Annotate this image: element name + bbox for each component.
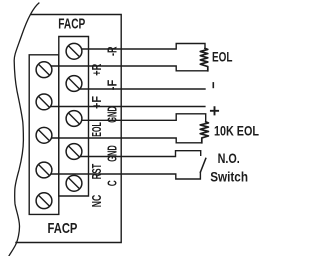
svg-text:10K EOL: 10K EOL [214, 122, 259, 138]
svg-text:C: C [106, 180, 120, 186]
svg-text:+R: +R [90, 64, 104, 76]
svg-text:N.O.: N.O. [218, 150, 240, 166]
svg-text:GND: GND [106, 106, 120, 123]
svg-text:Switch: Switch [210, 169, 248, 185]
svg-text:-F: -F [106, 79, 120, 90]
svg-text:FACP: FACP [58, 15, 85, 32]
svg-text:RST: RST [90, 164, 104, 180]
svg-text:-R: -R [106, 47, 120, 57]
svg-text:GND: GND [106, 145, 120, 162]
svg-text:NC: NC [90, 195, 104, 208]
svg-text:FACP: FACP [48, 220, 78, 237]
svg-text:EOL: EOL [90, 122, 104, 137]
svg-text:+F: +F [90, 96, 104, 109]
svg-text:EOL: EOL [212, 48, 233, 64]
